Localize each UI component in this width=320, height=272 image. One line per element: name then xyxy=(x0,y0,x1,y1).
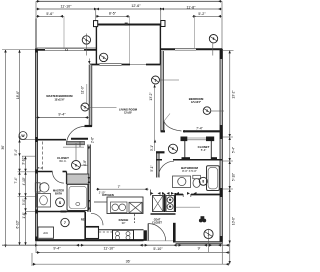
svg-text:8'-5": 8'-5" xyxy=(109,12,117,16)
left dim col C xyxy=(25,156,27,245)
door stub wall xyxy=(144,230,147,241)
svg-text:13'x11'6": 13'x11'6" xyxy=(54,99,64,102)
svg-text:5'-4": 5'-4" xyxy=(231,147,235,153)
master south wall xyxy=(79,142,81,148)
interior dims xyxy=(36,117,89,119)
WD closet xyxy=(166,196,174,212)
wall between laundry and kitchen xyxy=(84,212,86,241)
bathroom south wall xyxy=(175,194,222,196)
svg-text:3: 3 xyxy=(206,109,208,113)
svg-text:13'-2": 13'-2" xyxy=(149,92,153,100)
svg-text:9': 9' xyxy=(198,247,201,251)
svg-text:6: 6 xyxy=(75,164,77,168)
svg-text:9'-4": 9'-4" xyxy=(58,113,66,117)
svg-text:7'-4": 7'-4" xyxy=(14,177,18,183)
bedroom door arc xyxy=(164,122,182,132)
svg-text:5'-6": 5'-6" xyxy=(46,12,54,16)
front wall (behind porch) xyxy=(90,64,160,66)
svg-text:CLOSET: CLOSET xyxy=(152,221,162,224)
svg-text:11'-10": 11'-10" xyxy=(61,5,73,9)
closet tag circle xyxy=(72,161,81,170)
stub wall at master SE xyxy=(85,125,93,127)
vanity master xyxy=(37,194,51,208)
dim arrows along y=193.4 xyxy=(151,192,197,195)
svg-text:11'-10": 11'-10" xyxy=(104,247,116,251)
foyer flower symbol xyxy=(199,216,206,222)
bath door arc xyxy=(158,161,174,177)
right wing top wall xyxy=(161,48,223,50)
foyer step line xyxy=(176,206,200,208)
laundry / utility xyxy=(38,227,54,238)
left dim col B xyxy=(19,50,21,246)
hall closet partitions xyxy=(184,141,186,160)
svg-text:10'-6": 10'-6" xyxy=(231,217,235,225)
left horizontal ticks xyxy=(2,49,35,51)
bedroom south wall xyxy=(183,130,222,132)
svg-text:30": 30" xyxy=(122,221,126,225)
svg-text:5'-0": 5'-0" xyxy=(22,199,26,205)
svg-text:5'-4": 5'-4" xyxy=(201,148,207,152)
svg-text:9: 9 xyxy=(84,105,86,109)
right horizontal ticks xyxy=(223,49,234,51)
svg-text:2'-6": 2'-6" xyxy=(91,137,95,143)
master east wall xyxy=(89,65,92,127)
step wall jog xyxy=(173,223,176,243)
svg-text:7: 7 xyxy=(64,221,66,225)
pantry with X shelves xyxy=(153,196,164,212)
svg-text:8'-0" X 5'-0": 8'-0" X 5'-0" xyxy=(182,169,197,173)
keyed note circle left xyxy=(19,132,27,140)
bath north wall xyxy=(156,159,222,161)
right dim col xyxy=(229,50,231,264)
svg-text:11'-8": 11'-8" xyxy=(187,5,197,9)
closet rod dashed xyxy=(42,142,44,171)
bathroom fixtures xyxy=(173,176,191,188)
left wing top wall xyxy=(35,49,96,51)
svg-text:7'-4": 7'-4" xyxy=(196,127,204,131)
kitchen top counter xyxy=(107,197,143,214)
corner cabinet xyxy=(85,227,99,239)
top dimension row 2 xyxy=(36,15,64,17)
svg-text:3: 3 xyxy=(155,78,157,82)
foyer tag circle xyxy=(204,229,213,238)
left dim col A xyxy=(5,50,7,246)
south wall left xyxy=(35,239,143,241)
bottom dims row3 xyxy=(32,263,230,265)
svg-text:18'-6": 18'-6" xyxy=(16,91,20,99)
svg-text:12'-6": 12'-6" xyxy=(131,4,141,8)
hall wall small dim arrows xyxy=(88,147,91,204)
bottom counter + range xyxy=(99,229,144,231)
svg-text:5'-4": 5'-4" xyxy=(14,149,18,155)
right exterior wall xyxy=(220,49,223,244)
svg-text:9'-4": 9'-4" xyxy=(53,247,61,251)
master door leaf + arc xyxy=(67,141,85,144)
svg-text:4'-10": 4'-10" xyxy=(22,177,26,185)
svg-text:6'-10": 6'-10" xyxy=(16,220,20,228)
closet dresser box xyxy=(67,174,89,184)
svg-text:36': 36' xyxy=(1,145,5,150)
toilet master xyxy=(35,183,40,192)
bottom dims row2 xyxy=(36,252,230,254)
svg-text:MASTER BEDROOM: MASTER BEDROOM xyxy=(46,94,73,98)
bedroom west wall xyxy=(161,51,164,132)
porch xyxy=(94,24,162,26)
top dimension row 0 xyxy=(36,0,222,2)
shower xyxy=(67,184,89,210)
hall west wall xyxy=(88,145,91,213)
svg-text:13'-2": 13'-2" xyxy=(231,90,235,98)
living east wall xyxy=(156,152,159,178)
top dimension row 1 xyxy=(36,8,222,10)
svg-text:4'-8": 4'-8" xyxy=(83,160,87,166)
svg-text:5'-10": 5'-10" xyxy=(231,173,235,181)
tag circles with leaders xyxy=(82,36,90,44)
svg-text:7': 7' xyxy=(118,185,121,189)
svg-text:5'-10": 5'-10" xyxy=(153,247,163,251)
svg-text:3'-10": 3'-10" xyxy=(22,157,26,165)
bottom dims row1 xyxy=(2,244,230,246)
svg-text:2: 2 xyxy=(103,56,105,60)
left exterior wall xyxy=(35,49,38,241)
kitchen east wall line xyxy=(150,190,152,196)
bath wall corner xyxy=(61,211,67,213)
svg-text:A/C: A/C xyxy=(43,231,49,235)
svg-text:5'-2": 5'-2" xyxy=(198,12,206,16)
svg-text:5: 5 xyxy=(213,37,215,41)
svg-text:BATH: BATH xyxy=(55,191,62,195)
svg-text:12'x13'2": 12'x13'2" xyxy=(191,101,201,104)
svg-text:11'-0": 11'-0" xyxy=(81,86,85,94)
front door leaf + arc xyxy=(147,224,149,242)
top extension lines xyxy=(35,1,37,18)
svg-text:36': 36' xyxy=(126,259,131,263)
laundry door arc xyxy=(91,213,103,225)
svg-text:W.I.C.: W.I.C. xyxy=(59,159,67,163)
svg-text:KITCHEN: KITCHEN xyxy=(102,193,114,197)
svg-text:12'x20': 12'x20' xyxy=(124,112,132,115)
svg-text:5'-1": 5'-1" xyxy=(150,165,154,171)
south wall right xyxy=(176,242,223,245)
svg-text:6: 6 xyxy=(172,147,174,151)
svg-text:3'-1": 3'-1" xyxy=(150,145,154,151)
svg-text:1'-6": 1'-6" xyxy=(22,212,26,218)
svg-text:8: 8 xyxy=(202,180,204,184)
wic wall xyxy=(36,171,53,173)
